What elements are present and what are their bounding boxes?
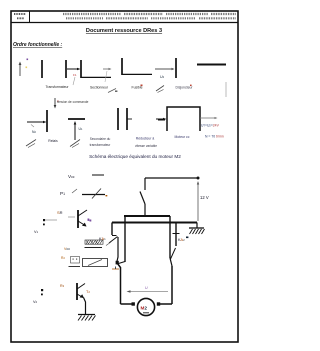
svg-text:Vcc: Vcc: [64, 247, 70, 251]
svg-text:Sectionneur: Sectionneur: [90, 86, 109, 90]
input terminal V1: [34, 219, 57, 234]
header arabic line 1: [63, 13, 236, 15]
switch K: [140, 178, 145, 216]
label Sectionneur: [90, 86, 109, 90]
svg-text:Vcc: Vcc: [68, 174, 75, 179]
outer bus ground: [112, 223, 197, 247]
inner bus +12V: [124, 216, 170, 262]
wire motor left: [118, 264, 135, 306]
label Fusible: [132, 86, 143, 90]
contact KA1 label: [99, 237, 106, 241]
contact KA2 blade: [170, 248, 176, 266]
bar 4 with elbow: [122, 58, 152, 75]
motor box: [156, 107, 200, 131]
svg-text:U1: U1: [79, 127, 83, 131]
svg-text:Réducteur à: Réducteur à: [136, 137, 155, 141]
wire top 12V: [145, 177, 198, 179]
formula N: [205, 135, 224, 139]
svg-text:Transformateur: Transformateur: [45, 85, 69, 89]
label SR: [57, 210, 75, 217]
svg-text:Disjoncteur: Disjoncteur: [176, 86, 194, 90]
motor M2: [137, 298, 154, 315]
svg-text:T2: T2: [86, 290, 90, 294]
purple speck near bus: [88, 219, 90, 221]
two-line caption block: [90, 137, 112, 147]
relay coil box KA: [83, 259, 108, 267]
voltage arrow 12V: [197, 181, 209, 221]
squiggle bottom left: [26, 140, 36, 148]
contact KA2 label: [178, 238, 185, 242]
svg-text:M2: M2: [141, 306, 148, 311]
svg-text:KA1: KA1: [99, 237, 106, 241]
small hatched box R2: [61, 256, 80, 267]
header arabic line 2: [66, 17, 236, 19]
potentiometer P1: [60, 189, 107, 199]
label Moteur: [175, 135, 190, 139]
wire motor right: [157, 266, 172, 306]
page frame: [11, 11, 238, 342]
bar 3 with elbow wire: [81, 60, 111, 78]
svg-text:N = 70 tr/mn: N = 70 tr/mn: [205, 135, 224, 139]
supply rail hatched Vcc: [64, 240, 103, 251]
svg-text:U: U: [145, 286, 148, 290]
sectionneur bar 2: [65, 60, 67, 78]
grey leader right: [225, 82, 227, 97]
title Document ressource DRes 3: [86, 28, 162, 34]
svg-text:Document ressource DRes 3: Document ressource DRes 3: [86, 28, 162, 34]
svg-text:Secondaire du: Secondaire du: [90, 137, 111, 141]
voltage arrow Um: [127, 286, 169, 293]
small dash right of bars: [158, 119, 165, 121]
svg-text:transformateur: transformateur: [90, 143, 112, 147]
header cell divider: [29, 11, 31, 23]
row2: arrow down: [54, 98, 59, 109]
junction left: [116, 261, 125, 265]
svg-text:12 V: 12 V: [200, 195, 209, 200]
svg-text:KA2: KA2: [178, 238, 185, 242]
subtitle Ordre fonctionnelle: [13, 42, 63, 48]
arrow up (source): [19, 62, 22, 77]
label Reducteur: [135, 137, 157, 149]
formula UT: [201, 124, 220, 128]
label R3: [60, 284, 65, 288]
svg-text:F1: F1: [73, 73, 77, 77]
thick line top right: [197, 64, 226, 66]
contact KA1 blade: [106, 237, 118, 263]
ground T2: [78, 315, 96, 321]
transistor T1: [78, 210, 91, 228]
svg-text:R2: R2: [61, 256, 65, 260]
label Relais: [48, 139, 58, 143]
header divider: [11, 22, 238, 24]
svg-text:N2: N2: [32, 130, 36, 134]
svg-text:U2: U2: [160, 75, 165, 79]
capacitor bars mid row2: [118, 108, 132, 130]
svg-text:vitesse variable: vitesse variable: [135, 144, 157, 148]
svg-text:UT=U2=24V: UT=U2=24V: [201, 124, 220, 128]
arrow U2: [155, 68, 175, 79]
svg-text:V1: V1: [34, 230, 39, 234]
svg-text:Relais: Relais: [48, 139, 58, 143]
svg-text:R3: R3: [60, 284, 65, 288]
svg-text:V2: V2: [33, 300, 38, 304]
sectionneur bar 1: [41, 60, 43, 78]
grey dash arrow (fuse gap): [103, 68, 112, 82]
ground right: [189, 228, 205, 234]
caption schema: [89, 154, 181, 159]
tiny sentence row2: [57, 100, 89, 104]
leader squiggle Q: [108, 89, 117, 93]
contact N2: bar + arrow: [27, 110, 47, 134]
transistor T2: [77, 283, 90, 314]
yellow speck: [26, 67, 28, 69]
label Disjoncteur: [176, 85, 194, 90]
label Vcc top: [68, 174, 104, 179]
label Transformateur: [45, 85, 69, 89]
header left cell text: [14, 14, 26, 18]
svg-text:tension de commande: tension de commande: [57, 100, 89, 104]
grey arrow out of box: [200, 117, 218, 119]
arrow between bars: [67, 68, 81, 71]
squiggle bottom mid: [70, 140, 80, 148]
svg-text:Ordre fonctionnelle :: Ordre fonctionnelle :: [13, 42, 63, 48]
svg-text:P1: P1: [60, 191, 65, 196]
small colored symbol right of coil: [112, 267, 119, 270]
red speck row1: [141, 85, 143, 87]
red label under arrow: [73, 73, 77, 85]
svg-text:SR: SR: [57, 210, 63, 215]
squiggle mid: [156, 86, 164, 93]
bar 5: [175, 58, 177, 78]
stray blue speck: [186, 237, 188, 239]
purple speck: [27, 59, 29, 61]
node dot 12V: [197, 177, 200, 180]
svg-text:Schéma électrique équivalent d: Schéma électrique équivalent du moteur M…: [89, 154, 181, 159]
svg-text:Moteur cc: Moteur cc: [175, 135, 190, 139]
contact U1: line + up arrow: [68, 119, 85, 140]
input terminal V2: [33, 289, 43, 304]
